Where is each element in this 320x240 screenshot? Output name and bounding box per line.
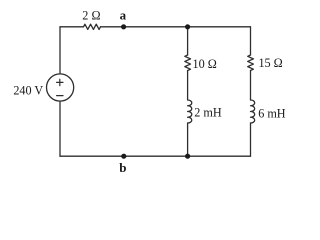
- source V1 circle: [47, 74, 74, 101]
- wire right branch: [250, 27, 252, 156]
- inductor 6mH: [251, 100, 255, 123]
- resistor 15ohm: [248, 55, 254, 71]
- wire bottom: [60, 155, 251, 157]
- junction dot bottom: [185, 154, 190, 159]
- wire top: [60, 26, 251, 28]
- svg-text:240 V: 240 V: [13, 83, 43, 97]
- svg-text:6 mH: 6 mH: [258, 106, 286, 120]
- svg-text:2 Ω: 2 Ω: [82, 9, 100, 23]
- inductor 2mH: [188, 100, 192, 123]
- svg-text:2 mH: 2 mH: [194, 106, 222, 120]
- wire left: [59, 27, 61, 156]
- svg-text:a: a: [120, 8, 127, 23]
- wire middle branch: [187, 27, 189, 156]
- source minus: [57, 95, 63, 97]
- svg-text:15 Ω: 15 Ω: [258, 56, 282, 70]
- svg-text:b: b: [119, 160, 126, 175]
- svg-text:10 Ω: 10 Ω: [193, 57, 217, 71]
- node b dot: [121, 154, 126, 159]
- junction dot top: [185, 24, 190, 29]
- resistor R 2ohm: [84, 24, 101, 29]
- source plus: [57, 79, 63, 85]
- resistor 10ohm: [185, 55, 191, 71]
- node a dot: [121, 24, 126, 29]
